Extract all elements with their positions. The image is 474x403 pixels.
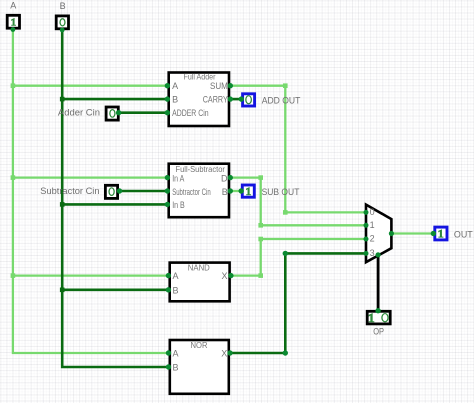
svg-text:OP: OP (373, 327, 384, 337)
wire A vertical (13, 29, 169, 354)
svg-text:1: 1 (370, 220, 375, 230)
svg-text:B: B (222, 187, 228, 197)
subcircuit U2 Full-Subtractor (165, 164, 233, 218)
output ADD OUT (239, 94, 301, 106)
input Adder Cin (58, 107, 121, 120)
multiplexer U5 (364, 205, 395, 263)
svg-text:A: A (173, 271, 179, 281)
wire B vertical (62, 30, 168, 368)
svg-text:SUB OUT: SUB OUT (262, 187, 300, 197)
input A (7, 1, 19, 32)
wire AdderCin to FullAdder (119, 111, 168, 114)
output OUT (431, 227, 473, 240)
node corner NANDX (258, 273, 263, 278)
svg-text:Subtractor Cin: Subtractor Cin (172, 187, 211, 197)
svg-text:CARRY: CARRY (203, 94, 228, 104)
wire B to FullSubtractor InB (62, 203, 167, 206)
svg-text:A: A (172, 81, 178, 91)
wire Borrow to SUB OUT (230, 190, 241, 192)
node corner SUM (283, 83, 288, 88)
input Subtractor Cin (40, 185, 122, 198)
svg-text:Full-Subtractor: Full-Subtractor (176, 164, 226, 174)
svg-text:X: X (221, 349, 227, 359)
node junction A-adder (11, 83, 16, 88)
node corner NANDX-mux2 (258, 237, 263, 242)
svg-text:3: 3 (370, 248, 375, 258)
node junction B-nand (60, 288, 65, 293)
svg-text:D: D (221, 174, 228, 184)
svg-text:NOR: NOR (191, 340, 208, 350)
svg-text:ADDER Cin: ADDER Cin (172, 108, 209, 118)
wire MUX select bus to OP (377, 255, 380, 311)
svg-text:B: B (173, 286, 179, 296)
input B (56, 1, 68, 32)
svg-text:In B: In B (172, 200, 185, 210)
wire B to FullAdder B (62, 98, 167, 101)
node junction A-subtractor (11, 175, 16, 180)
node corner D-mux1 (258, 223, 263, 228)
svg-text:A: A (173, 349, 179, 359)
svg-text:Adder Cin: Adder Cin (58, 108, 100, 118)
subcircuit U1 Full Adder (165, 72, 233, 126)
node corner NORX (283, 350, 288, 355)
svg-text:SUM: SUM (210, 81, 228, 91)
wire MUX out to OUT (391, 232, 433, 234)
svg-text:B: B (60, 1, 66, 11)
wire CARRY to ADD OUT (230, 98, 242, 101)
node junction B-subtractor (60, 202, 65, 207)
node corner SUM-mux0 (283, 210, 288, 215)
svg-text:In A: In A (172, 174, 184, 184)
svg-text:ADD OUT: ADD OUT (262, 95, 301, 105)
wire SubtractorCin to FullSubtractor (120, 190, 168, 193)
node junction B-adder (60, 97, 65, 102)
svg-text:B: B (173, 363, 179, 373)
wire NAND X to MUX input2 (231, 239, 366, 276)
node corner NORX-mux3 (283, 251, 288, 256)
wire B to NAND B (62, 288, 168, 291)
node corner D (258, 175, 263, 180)
subcircuit U3 NAND (166, 263, 234, 302)
svg-text:2: 2 (370, 233, 375, 243)
svg-text:A: A (10, 1, 16, 11)
wire A to FullAdder A (13, 85, 168, 87)
svg-text:Subtractor Cin: Subtractor Cin (40, 186, 99, 196)
wire A to FullSubtractor InA (13, 176, 168, 178)
svg-text:NAND: NAND (188, 263, 210, 273)
svg-text:OUT: OUT (454, 229, 473, 239)
subcircuit U4 NOR (166, 340, 233, 394)
svg-text:Full Adder: Full Adder (184, 72, 216, 82)
wire SUM to MUX input0 (230, 86, 366, 213)
output SUB OUT (239, 185, 300, 197)
svg-text:X: X (221, 271, 227, 281)
wire D to MUX input1 (230, 178, 366, 226)
node junction A-nand (11, 273, 16, 278)
svg-text:0: 0 (370, 207, 375, 217)
input OP (367, 308, 390, 337)
wire A to NAND A (13, 274, 169, 276)
wire NOR X to MUX input3 (230, 253, 366, 353)
svg-text:B: B (172, 94, 178, 104)
